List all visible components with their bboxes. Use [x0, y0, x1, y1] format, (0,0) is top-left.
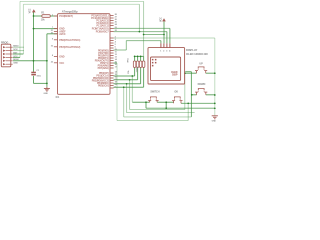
svg-text:DISP: DISP [172, 74, 178, 77]
svg-text:UP: UP [199, 62, 203, 65]
svg-text:PROG: PROG [1, 41, 8, 45]
svg-text:DOWN: DOWN [198, 83, 206, 86]
svg-text:10kX4: 10kX4 [135, 66, 138, 73]
svg-text:PC6(RESET): PC6(RESET) [59, 15, 73, 18]
svg-text:SCK: SCK [13, 49, 18, 51]
svg-text:PD7(AIN1): PD7(AIN1) [98, 67, 109, 70]
svg-text:GND: GND [59, 56, 64, 59]
svg-text:GND: GND [13, 63, 18, 65]
svg-text:PB7(XTAL2/TOSC2): PB7(XTAL2/TOSC2) [59, 46, 80, 49]
svg-text:VCC: VCC [13, 56, 18, 58]
svg-text:OLED 128X64 I2C: OLED 128X64 I2C [186, 52, 208, 56]
svg-text:MOSI: MOSI [13, 59, 19, 61]
svg-text:PC6B/ADC7: PC6B/ADC7 [96, 31, 110, 34]
svg-text:VCC: VCC [159, 17, 162, 22]
svg-text:GND: GND [44, 93, 49, 95]
svg-text:VCC: VCC [28, 8, 31, 13]
svg-text:VCC: VCC [59, 62, 64, 65]
svg-text:PB5(SCK): PB5(SCK) [98, 85, 109, 88]
svg-text:SWITCH: SWITCH [150, 90, 159, 93]
svg-text:GND: GND [212, 120, 217, 122]
svg-text:MISO: MISO [13, 46, 19, 48]
svg-text:AVCC: AVCC [59, 33, 66, 36]
svg-text:100n: 100n [36, 75, 41, 77]
svg-text:ATmega328p: ATmega328p [62, 9, 78, 13]
svg-text:PB6(XTAL1/TOSC1): PB6(XTAL1/TOSC1) [59, 39, 80, 42]
svg-text:OK: OK [174, 90, 178, 93]
